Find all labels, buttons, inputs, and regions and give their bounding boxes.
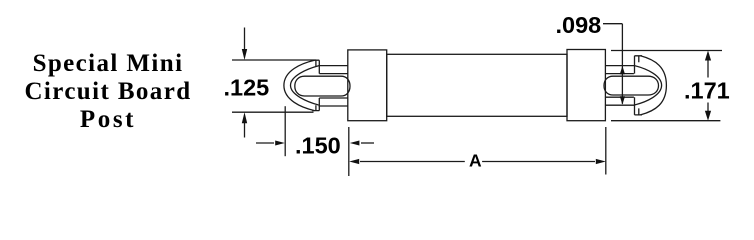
left flange <box>348 50 387 121</box>
right head: outer wing curve <box>640 56 666 115</box>
dim .150 left extension line <box>284 106 286 156</box>
dim .150 right extension line / A left extension line <box>348 127 350 176</box>
svg-text:.098: .098 <box>556 12 602 38</box>
left head: inner wing curve <box>291 66 319 105</box>
dim .098 double arrow heads <box>620 66 625 74</box>
svg-text:.125: .125 <box>224 75 270 101</box>
dim .171 dim line top segment <box>707 60 709 78</box>
body cylinder <box>387 54 567 116</box>
dim .171 arrowheads <box>705 51 711 61</box>
dim .125 bottom extension line <box>232 111 314 113</box>
left head: capsule <box>295 76 350 96</box>
dim .125 top arrow <box>244 28 246 50</box>
right head: capsule <box>604 76 659 95</box>
dim .150 left arrow <box>256 142 274 144</box>
title text <box>0 50 216 134</box>
right head: bottom neck <box>635 97 643 115</box>
dim .171 bottom extension line <box>611 120 720 122</box>
left head: inner pair lines <box>319 74 348 98</box>
dim .125 top extension line <box>232 59 316 61</box>
dim A right arrowhead <box>596 159 606 164</box>
right head: shaft lines <box>605 66 634 106</box>
svg-text:.150: .150 <box>295 133 341 159</box>
right flange <box>567 50 605 121</box>
dim .171 dim line bottom segment <box>707 103 709 112</box>
dim A left arrowhead <box>349 159 359 164</box>
dim .125 bottom arrow <box>244 123 246 138</box>
left head: top neck <box>312 60 319 73</box>
dim A right extension line <box>605 127 607 175</box>
dim .171 top extension line <box>611 50 722 52</box>
left head: bottom neck <box>312 98 319 111</box>
right head: top neck <box>635 56 643 74</box>
svg-text:A: A <box>469 151 482 171</box>
left head: shaft lines <box>319 66 348 106</box>
right head: inner wing curve <box>635 66 662 105</box>
dimension labels <box>224 12 730 171</box>
right head: inner pair lines <box>605 74 634 98</box>
svg-text:.171: .171 <box>684 77 730 103</box>
dim .098 leader horizontal <box>603 23 622 25</box>
dim .098 leader vertical <box>621 24 623 104</box>
dim A line left segment <box>360 161 465 163</box>
dim .150 right arrow <box>361 142 374 144</box>
left head: outer wing curve <box>284 60 315 110</box>
dim A line right segment <box>482 161 595 163</box>
